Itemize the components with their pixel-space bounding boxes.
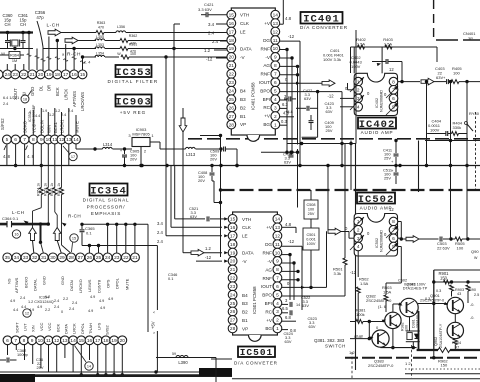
diode D381 network bbox=[406, 330, 420, 332]
wire bbox=[327, 166, 329, 231]
svg-text:0: 0 bbox=[61, 310, 63, 314]
svg-text:DATA: DATA bbox=[64, 324, 69, 334]
svg-text:D/A CONVERTER: D/A CONVERTER bbox=[300, 25, 348, 30]
svg-text:35: 35 bbox=[5, 255, 11, 261]
transistor Q902 PNP bbox=[447, 322, 463, 338]
svg-text:63V: 63V bbox=[302, 303, 309, 308]
board boundary dashed bbox=[221, 189, 480, 191]
svg-text:5: 5 bbox=[274, 88, 277, 94]
svg-text:100: 100 bbox=[405, 325, 409, 331]
wire bbox=[216, 23, 227, 25]
wire bbox=[317, 92, 319, 138]
svg-text:R351 1k: R351 1k bbox=[57, 183, 61, 196]
svg-text:2SC2458TP-0: 2SC2458TP-0 bbox=[366, 298, 392, 303]
svg-text:23: 23 bbox=[13, 72, 19, 78]
resistor R364 bbox=[9, 52, 20, 59]
svg-text:34: 34 bbox=[14, 255, 20, 261]
svg-text:9: 9 bbox=[276, 259, 279, 265]
wire bbox=[220, 134, 222, 257]
svg-text:5: 5 bbox=[6, 137, 9, 143]
svg-text:-12: -12 bbox=[288, 34, 295, 39]
svg-text:+4.8: +4.8 bbox=[285, 109, 294, 114]
svg-text:6: 6 bbox=[392, 96, 395, 102]
svg-text:IC501: IC501 bbox=[240, 347, 274, 358]
dashed bottom bbox=[345, 357, 480, 359]
wire +V5b bbox=[282, 320, 297, 322]
wire bbox=[165, 166, 167, 236]
svg-text:15: 15 bbox=[230, 217, 236, 223]
svg-text:25: 25 bbox=[96, 255, 102, 261]
svg-text:2.2: 2.2 bbox=[45, 308, 50, 312]
svg-text:20V: 20V bbox=[130, 157, 137, 162]
svg-text:DPOL: DPOL bbox=[80, 322, 85, 334]
svg-text:11: 11 bbox=[46, 338, 51, 344]
svg-text:1.2: 1.2 bbox=[28, 300, 33, 304]
svg-text:19: 19 bbox=[111, 338, 117, 344]
IC501 right pins 14-1 bbox=[273, 215, 282, 224]
svg-text:4: 4 bbox=[276, 301, 279, 307]
svg-text:3.3k: 3.3k bbox=[334, 271, 342, 276]
svg-text:4. 8: 4. 8 bbox=[27, 154, 35, 159]
svg-text:2: 2 bbox=[274, 114, 277, 120]
svg-text:63V: 63V bbox=[284, 160, 291, 165]
svg-text:R362: R362 bbox=[129, 34, 138, 38]
svg-text:21: 21 bbox=[132, 255, 138, 261]
wire bbox=[450, 166, 452, 240]
svg-text:RNF: RNF bbox=[261, 46, 271, 51]
svg-text:7: 7 bbox=[274, 72, 277, 78]
svg-text:15: 15 bbox=[80, 72, 86, 78]
svg-text:IC402: IC402 bbox=[359, 119, 396, 131]
svg-text:+V: +V bbox=[266, 225, 273, 230]
svg-text:12: 12 bbox=[54, 338, 60, 344]
svg-text:14: 14 bbox=[275, 217, 281, 223]
svg-text:100: 100 bbox=[130, 52, 136, 56]
wire DG5 bbox=[282, 245, 303, 247]
svg-text:43: 43 bbox=[457, 292, 461, 296]
svg-text:+5V: +5V bbox=[151, 321, 156, 329]
svg-text:23: 23 bbox=[229, 80, 235, 86]
svg-text:C508: C508 bbox=[306, 203, 315, 207]
wire bbox=[7, 345, 9, 355]
svg-text:330k: 330k bbox=[453, 125, 462, 130]
transistor Q382 bbox=[385, 312, 401, 328]
svg-text:2.4: 2.4 bbox=[69, 307, 74, 311]
svg-text:D16/T8: D16/T8 bbox=[96, 279, 101, 293]
ref circle 14 bbox=[85, 362, 93, 370]
IC354 label box bbox=[90, 184, 128, 196]
svg-text:+V: +V bbox=[264, 114, 271, 119]
signal arrow R-CH bbox=[65, 37, 78, 44]
svg-text:AUDIO AMP: AUDIO AMP bbox=[361, 130, 394, 135]
svg-text:RNF: RNF bbox=[263, 276, 273, 281]
op-amp IC402 body bbox=[354, 73, 397, 115]
svg-text:DIGITAL FILTER: DIGITAL FILTER bbox=[108, 79, 159, 84]
svg-text:L390: L390 bbox=[178, 360, 188, 365]
wire IOUT5 bbox=[282, 286, 323, 288]
wire bbox=[348, 89, 355, 91]
svg-text:0.1: 0.1 bbox=[168, 276, 173, 281]
svg-text:5: 5 bbox=[276, 292, 279, 298]
svg-text:18: 18 bbox=[23, 98, 27, 102]
wire bbox=[211, 358, 232, 360]
svg-text:8: 8 bbox=[276, 267, 279, 273]
ref circle 15 bbox=[70, 234, 78, 242]
svg-text:2SC2458TP-0: 2SC2458TP-0 bbox=[420, 299, 444, 303]
svg-text:R354 1k: R354 1k bbox=[37, 183, 41, 196]
IC401 right pins 14-1 bbox=[271, 10, 280, 19]
svg-text:4: 4 bbox=[357, 244, 360, 250]
wire bbox=[418, 303, 447, 305]
svg-text:16: 16 bbox=[14, 233, 18, 237]
svg-text:1 2: 1 2 bbox=[349, 350, 355, 355]
svg-text:DATAL: DATAL bbox=[33, 278, 38, 291]
svg-text:+V: +V bbox=[266, 318, 273, 323]
wire bbox=[48, 345, 50, 372]
svg-text:+: + bbox=[120, 148, 123, 153]
svg-text:Q902: Q902 bbox=[434, 337, 438, 346]
wire bbox=[392, 329, 394, 348]
ref circle 17 bbox=[69, 152, 77, 160]
vertical bus bbox=[173, 24, 175, 166]
svg-text:17: 17 bbox=[229, 29, 235, 35]
svg-text:OPS: OPS bbox=[106, 279, 111, 288]
svg-text:(1. 6: (1. 6 bbox=[378, 304, 387, 309]
svg-text:12: 12 bbox=[389, 67, 394, 72]
svg-text:63V: 63V bbox=[190, 214, 197, 219]
svg-text:1.2: 1.2 bbox=[205, 246, 211, 251]
wire AG bbox=[280, 65, 298, 67]
svg-text:L313: L313 bbox=[186, 152, 196, 157]
svg-text:LNT: LNT bbox=[23, 323, 28, 331]
svg-text:AG: AG bbox=[265, 267, 272, 272]
svg-text:18: 18 bbox=[230, 242, 236, 248]
svg-text:1.9: 1.9 bbox=[42, 109, 47, 113]
svg-text:1: 1 bbox=[276, 326, 279, 332]
line bbox=[405, 373, 480, 375]
wire bbox=[78, 40, 96, 42]
wire bbox=[48, 37, 50, 71]
wire RNF2 bbox=[280, 74, 298, 76]
junction bbox=[219, 147, 222, 150]
svg-text:3.4: 3.4 bbox=[157, 221, 163, 226]
svg-text:14: 14 bbox=[296, 303, 300, 307]
svg-text:6.3: 6.3 bbox=[282, 102, 288, 107]
svg-text:DIGITAL SIGNAL: DIGITAL SIGNAL bbox=[83, 198, 130, 203]
svg-text:DPOL: DPOL bbox=[115, 277, 120, 289]
ground bar bbox=[0, 374, 35, 382]
svg-text:100k: 100k bbox=[356, 312, 365, 317]
svg-text:-12: -12 bbox=[288, 239, 295, 244]
svg-text:11: 11 bbox=[275, 242, 280, 248]
svg-text:2: 2 bbox=[357, 88, 360, 94]
svg-text:IC502: IC502 bbox=[375, 238, 379, 248]
svg-text:8: 8 bbox=[392, 79, 395, 85]
wire bbox=[454, 314, 456, 323]
svg-text:4.4: 4.4 bbox=[21, 305, 26, 309]
svg-text:10: 10 bbox=[275, 250, 281, 256]
svg-text:8: 8 bbox=[32, 137, 35, 143]
svg-text:DL: DL bbox=[38, 85, 43, 91]
svg-text:XIN: XIN bbox=[31, 325, 36, 332]
svg-text:0.1: 0.1 bbox=[86, 231, 92, 236]
svg-text:PROCESSOR/: PROCESSOR/ bbox=[87, 204, 126, 209]
wire bbox=[398, 246, 402, 248]
svg-text:CLK: CLK bbox=[242, 225, 252, 230]
svg-text:BCK: BCK bbox=[55, 323, 60, 332]
svg-text:4.9: 4.9 bbox=[108, 297, 113, 301]
svg-text:VP: VP bbox=[240, 122, 246, 127]
svg-text:VTH: VTH bbox=[242, 217, 251, 222]
op-amp IC401 D/A converter body bbox=[231, 8, 275, 135]
wire bbox=[24, 108, 26, 135]
svg-text:LRCK/WS: LRCK/WS bbox=[80, 92, 85, 111]
wire bbox=[174, 166, 176, 219]
arrowhead bbox=[24, 221, 29, 225]
svg-text:22: 22 bbox=[21, 72, 27, 78]
svg-text:2SC2458TP-0: 2SC2458TP-0 bbox=[368, 363, 394, 368]
svg-text:4.9: 4.9 bbox=[29, 308, 34, 312]
svg-text:CH: CH bbox=[4, 22, 10, 27]
svg-text:SWITCH: SWITCH bbox=[325, 344, 346, 349]
svg-text:S/IS2: S/IS2 bbox=[105, 324, 110, 335]
svg-text:+5V REG: +5V REG bbox=[120, 110, 147, 115]
capacitor C406 bbox=[385, 59, 387, 64]
wire bbox=[392, 304, 394, 312]
svg-text:100: 100 bbox=[308, 208, 314, 212]
svg-text:4.9: 4.9 bbox=[100, 306, 105, 310]
vertical bus bbox=[344, 144, 346, 246]
svg-text:32: 32 bbox=[32, 255, 38, 261]
svg-text:23: 23 bbox=[230, 284, 236, 290]
svg-text:150: 150 bbox=[441, 363, 448, 368]
vertical bus bbox=[165, 57, 167, 166]
svg-text:SOFT: SOFT bbox=[14, 322, 19, 333]
svg-text:L356: L356 bbox=[117, 25, 125, 29]
svg-text:3P: 3P bbox=[468, 36, 473, 41]
connector row IC354 top pins 35-21 bbox=[3, 253, 12, 262]
wire BPO5 bbox=[282, 295, 346, 297]
wire bbox=[434, 269, 480, 271]
transistor Q901 bbox=[447, 297, 463, 313]
svg-text:12: 12 bbox=[389, 207, 394, 212]
svg-text:DTA114ES-TP: DTA114ES-TP bbox=[403, 287, 428, 291]
svg-text:VCC: VCC bbox=[47, 322, 52, 331]
svg-text:CXD1244Q: CXD1244Q bbox=[34, 300, 53, 304]
svg-text:63V: 63V bbox=[285, 339, 292, 344]
vertical bus bbox=[355, 30, 357, 144]
svg-text:20V: 20V bbox=[210, 157, 217, 162]
svg-text:NS: NS bbox=[6, 278, 11, 284]
wire bbox=[466, 82, 468, 166]
svg-text:B4: B4 bbox=[240, 89, 246, 94]
svg-text:DG: DG bbox=[265, 242, 272, 247]
svg-text:8: 8 bbox=[274, 63, 277, 69]
wire bbox=[200, 135, 221, 137]
wire bbox=[196, 260, 222, 262]
wire BG bbox=[280, 124, 288, 126]
svg-text:4.8: 4.8 bbox=[285, 222, 292, 227]
transistor Q381 bbox=[400, 298, 418, 316]
svg-text:22 63V: 22 63V bbox=[437, 246, 450, 251]
wire bbox=[65, 44, 67, 70]
svg-text:LRCK: LRCK bbox=[72, 323, 77, 334]
svg-text:0. 8: 0. 8 bbox=[356, 334, 363, 339]
IC501 label box bbox=[238, 347, 275, 358]
IC401 label box bbox=[301, 12, 343, 24]
svg-text:21: 21 bbox=[229, 63, 235, 69]
op-amp IC502 body bbox=[354, 214, 397, 257]
svg-text:L314: L314 bbox=[103, 142, 113, 147]
svg-text:2: 2 bbox=[357, 228, 360, 234]
svg-text:2.4: 2.4 bbox=[20, 296, 25, 300]
svg-text:1.2: 1.2 bbox=[204, 48, 211, 53]
wire bbox=[351, 46, 438, 48]
svg-text:15: 15 bbox=[72, 237, 76, 241]
svg-text:63V: 63V bbox=[309, 324, 316, 329]
wire bbox=[380, 346, 382, 348]
svg-text:2.4: 2.4 bbox=[212, 39, 219, 44]
svg-text:APT/WS: APT/WS bbox=[72, 91, 77, 107]
svg-text:12: 12 bbox=[59, 137, 65, 143]
svg-text:23: 23 bbox=[114, 255, 120, 261]
svg-text:4.9: 4.9 bbox=[88, 309, 93, 313]
svg-text:18: 18 bbox=[103, 338, 109, 344]
signal arrow L-CH bbox=[48, 29, 61, 36]
wire bbox=[107, 224, 109, 253]
wire bbox=[368, 322, 370, 339]
svg-text:1.2: 1.2 bbox=[49, 113, 54, 117]
svg-text:4.9: 4.9 bbox=[90, 295, 95, 299]
svg-text:-0.: -0. bbox=[470, 303, 474, 307]
svg-text:12: 12 bbox=[273, 29, 279, 35]
svg-text:IC353: IC353 bbox=[115, 67, 152, 79]
bus wire bbox=[0, 165, 480, 167]
svg-text:15: 15 bbox=[79, 338, 85, 344]
svg-text:6.4 1/2X1: 6.4 1/2X1 bbox=[3, 96, 19, 100]
svg-text:4.9: 4.9 bbox=[99, 299, 104, 303]
svg-text:LE/WS: LE/WS bbox=[87, 279, 92, 292]
svg-text:33: 33 bbox=[23, 255, 29, 261]
IC402 pins 1-4 bbox=[354, 77, 363, 86]
svg-text:24: 24 bbox=[230, 292, 236, 298]
svg-text:6: 6 bbox=[392, 236, 395, 242]
svg-text:27: 27 bbox=[78, 255, 84, 261]
svg-text:DATA: DATA bbox=[242, 251, 255, 256]
svg-text:Q381. 382. 383: Q381. 382. 383 bbox=[314, 338, 345, 343]
signal arrow to IC502 bbox=[328, 228, 341, 235]
svg-text:18: 18 bbox=[229, 38, 235, 44]
wire L390 line bbox=[156, 357, 216, 359]
svg-text:DG: DG bbox=[263, 38, 270, 43]
svg-text:19: 19 bbox=[46, 72, 52, 78]
svg-text:IC501 PCM58: IC501 PCM58 bbox=[252, 286, 257, 314]
svg-text:L-CH: L-CH bbox=[47, 23, 60, 29]
svg-text:27: 27 bbox=[230, 318, 236, 324]
IC502 label box bbox=[357, 193, 395, 204]
svg-text:1M: 1M bbox=[12, 59, 17, 63]
svg-text:2.4: 2.4 bbox=[208, 30, 215, 35]
svg-text:LE: LE bbox=[242, 234, 248, 239]
svg-text:4.9: 4.9 bbox=[10, 299, 15, 303]
svg-text:100V 3.3k: 100V 3.3k bbox=[323, 57, 341, 62]
svg-text:R361: R361 bbox=[129, 42, 138, 46]
svg-text:25V: 25V bbox=[37, 365, 44, 370]
svg-text:MSF7805: MSF7805 bbox=[132, 132, 150, 137]
IC401 left pins 15-28 bbox=[227, 10, 236, 19]
svg-text:LFS: LFS bbox=[96, 322, 101, 330]
vertical bus bbox=[182, 108, 184, 118]
svg-text:25V: 25V bbox=[384, 176, 391, 181]
wire mid bus 2 bbox=[82, 245, 157, 247]
svg-text:C501: C501 bbox=[306, 233, 315, 237]
svg-text:470: 470 bbox=[98, 26, 104, 30]
signal arrow L-CH up bbox=[29, 228, 37, 241]
svg-text:3.3 63V: 3.3 63V bbox=[198, 7, 212, 12]
svg-text:9: 9 bbox=[40, 137, 43, 143]
wire mid bus bbox=[82, 223, 148, 225]
svg-text:1: 1 bbox=[274, 122, 277, 128]
svg-text:31: 31 bbox=[41, 255, 47, 261]
svg-text:VTH: VTH bbox=[240, 13, 249, 18]
svg-text:30: 30 bbox=[50, 255, 56, 261]
svg-text:20: 20 bbox=[229, 55, 235, 61]
svg-text:20V: 20V bbox=[198, 178, 205, 183]
wire bbox=[28, 33, 30, 71]
svg-text:DATA: DATA bbox=[240, 46, 253, 51]
svg-text:21: 21 bbox=[230, 267, 236, 273]
wire BPI5 bbox=[282, 303, 289, 305]
svg-text:13: 13 bbox=[275, 225, 281, 231]
svg-text:RC: RC bbox=[263, 105, 270, 110]
wire bbox=[43, 48, 96, 50]
svg-text:10: 10 bbox=[38, 338, 44, 344]
wire RNF5b bbox=[282, 279, 299, 281]
svg-text:LRCKO: LRCKO bbox=[78, 279, 83, 293]
svg-text:6: 6 bbox=[14, 137, 17, 143]
svg-text:47p: 47p bbox=[36, 15, 44, 20]
board dashed corner bbox=[433, 0, 435, 40]
svg-text:9: 9 bbox=[274, 55, 277, 61]
svg-text:Q901: Q901 bbox=[430, 293, 441, 298]
svg-text:IC354: IC354 bbox=[90, 185, 127, 197]
svg-text:11: 11 bbox=[273, 38, 278, 44]
svg-text:AUDIO AMP: AUDIO AMP bbox=[360, 206, 393, 211]
svg-text:24: 24 bbox=[5, 72, 11, 78]
svg-text:IC903: IC903 bbox=[115, 96, 152, 108]
svg-text:BCKO: BCKO bbox=[23, 277, 28, 288]
svg-text:28: 28 bbox=[229, 122, 235, 128]
wire bbox=[88, 246, 90, 253]
svg-text:20: 20 bbox=[38, 72, 44, 78]
IC502 pins 8-5 bbox=[389, 217, 398, 226]
wire pin8 out bbox=[398, 81, 420, 83]
IC402 pins 8-5 bbox=[389, 77, 398, 86]
capacitor C501 boxed bbox=[303, 228, 319, 250]
svg-text:B1: B1 bbox=[240, 114, 246, 119]
svg-text:W: W bbox=[474, 256, 478, 260]
arrowhead bbox=[62, 223, 67, 227]
IC402 pot arrows bbox=[350, 77, 364, 92]
wire bbox=[182, 132, 184, 253]
svg-text:-12: -12 bbox=[206, 57, 213, 62]
svg-text:4. 8: 4. 8 bbox=[3, 154, 11, 159]
svg-text:12: 12 bbox=[275, 233, 281, 239]
svg-text:RY40: RY40 bbox=[469, 111, 480, 116]
ground bar 2 bbox=[199, 368, 232, 376]
svg-text:LRCK: LRCK bbox=[63, 89, 68, 100]
connector row CN353 pins 24-15 bbox=[0, 70, 3, 79]
